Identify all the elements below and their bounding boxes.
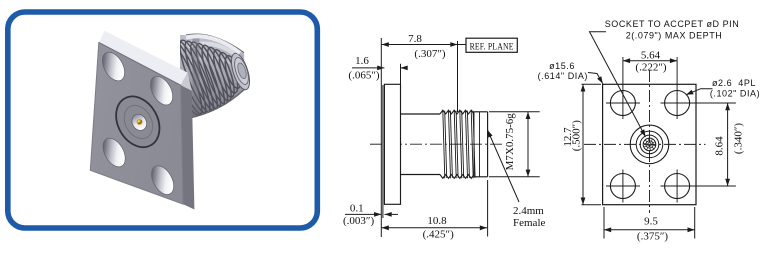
svg-text:(.340″): (.340″) <box>733 123 745 154</box>
svg-text:0.1: 0.1 <box>350 203 364 215</box>
svg-text:1.6: 1.6 <box>355 55 369 67</box>
svg-text:8.64: 8.64 <box>714 136 726 156</box>
svg-text:(.065″): (.065″) <box>348 70 379 82</box>
svg-text:5.64: 5.64 <box>641 50 661 62</box>
svg-text:7.8: 7.8 <box>408 33 422 45</box>
svg-text:(.102" DIA): (.102" DIA) <box>710 89 760 99</box>
svg-text:9.5: 9.5 <box>644 216 658 228</box>
svg-text:(.500″): (.500″) <box>571 120 583 151</box>
svg-text:(.425″): (.425″) <box>423 229 454 241</box>
svg-text:10.8: 10.8 <box>427 215 447 227</box>
svg-text:REF. PLANE: REF. PLANE <box>470 42 514 52</box>
svg-text:(.614" DIA): (.614" DIA) <box>538 71 588 81</box>
svg-text:Female: Female <box>513 217 545 229</box>
svg-text:M7X0.75-6g: M7X0.75-6g <box>504 113 516 171</box>
svg-text:(.307″): (.307″) <box>414 48 445 60</box>
svg-text:SOCKET TO ACCPET øD PIN: SOCKET TO ACCPET øD PIN <box>605 19 740 29</box>
svg-text:(.003″): (.003″) <box>343 215 374 227</box>
svg-text:(.375″): (.375″) <box>637 231 668 243</box>
svg-text:2.4mm: 2.4mm <box>513 205 544 217</box>
svg-text:ø15.6: ø15.6 <box>549 61 575 71</box>
svg-text:ø2.6 4PL: ø2.6 4PL <box>712 78 756 88</box>
svg-text:2(.079") MAX DEPTH: 2(.079") MAX DEPTH <box>626 31 723 41</box>
svg-text:(.222″): (.222″) <box>635 62 666 74</box>
